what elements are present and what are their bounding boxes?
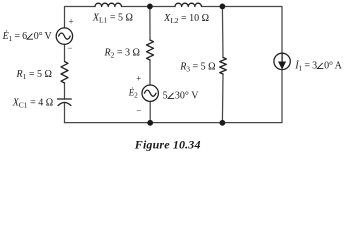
inductor XL1 (95, 3, 121, 6)
wire top between XL1 and node A (122, 6, 150, 8)
wire bottom right segment (222, 70, 282, 123)
resistor R2 (147, 40, 154, 60)
svg-text:−: − (67, 43, 72, 53)
svg-text:R1 = 5 Ω: R1 = 5 Ω (16, 69, 52, 81)
resistor R1 (61, 62, 68, 84)
node A junction dot (147, 4, 153, 10)
svg-text:R3 = 5 Ω: R3 = 5 Ω (179, 62, 215, 74)
svg-text:0° A: 0° A (324, 61, 342, 72)
resistor R3 (220, 58, 227, 75)
svg-text:+: + (69, 17, 74, 27)
svg-text:0° V: 0° V (34, 31, 53, 42)
wire XC1 to bottom-left corner (64, 104, 66, 123)
current source I1 arrow shaft (281, 54, 283, 63)
wire bottom left segment (65, 122, 151, 124)
capacitor XC1 top plate (58, 98, 72, 100)
wire R1 to XC1 (64, 83, 66, 99)
capacitor XC1 curved plate (58, 102, 71, 105)
wire E1 to R1 (64, 44, 66, 61)
wire R2 to E2 (149, 60, 151, 85)
wire R3 to bottom node D (221, 74, 224, 123)
svg-text:+: + (136, 74, 141, 84)
svg-text:İ1 = 3: İ1 = 3 (294, 60, 317, 73)
voltage source E2 sine (144, 90, 156, 96)
svg-text:30° V: 30° V (175, 90, 199, 101)
voltage source E1 sine (59, 33, 71, 39)
svg-text:−: − (136, 105, 141, 115)
svg-text:XL2 = 10 Ω: XL2 = 10 Ω (163, 13, 209, 25)
wire top between node A and XL2 (150, 6, 175, 8)
svg-text:Ė1 = 6: Ė1 = 6 (2, 30, 28, 43)
svg-text:XC1 = 4 Ω: XC1 = 4 Ω (12, 97, 53, 109)
inductor XL2 (175, 3, 201, 6)
svg-text:Ė2: Ė2 (128, 88, 139, 100)
wire node B down to R3 (221, 7, 224, 58)
wire top-left segment (65, 7, 96, 28)
node C junction dot (147, 120, 153, 126)
wire node A down to R2 (149, 7, 151, 41)
label E2 angle symbol (168, 93, 174, 99)
voltage source E2 circle (142, 85, 158, 101)
wire bottom middle segment (150, 122, 222, 124)
wire top between XL2 and node B (202, 6, 223, 8)
current source I1 circle (274, 53, 290, 69)
voltage source E1 circle (56, 28, 72, 44)
label I1 angle symbol (317, 63, 323, 69)
label E1 angle symbol (27, 34, 33, 40)
svg-text:R2 = 3 Ω: R2 = 3 Ω (104, 47, 140, 59)
svg-text:5: 5 (163, 90, 168, 101)
node B junction dot (220, 4, 226, 10)
wire top-right segment (222, 7, 282, 54)
current source I1 arrowhead (278, 62, 286, 70)
svg-text:XL1 = 5 Ω: XL1 = 5 Ω (92, 12, 133, 24)
node D junction dot (220, 120, 226, 126)
wire E2 to bottom node C (149, 101, 151, 122)
svg-text:Figure 10.34: Figure 10.34 (134, 137, 201, 151)
